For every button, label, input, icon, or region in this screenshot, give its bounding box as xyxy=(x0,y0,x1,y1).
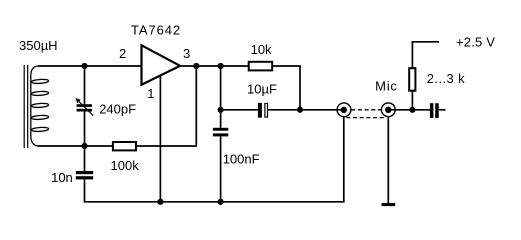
svg-text:2...3 k: 2...3 k xyxy=(427,71,465,86)
capacitor C1 240pF arrow xyxy=(75,98,93,116)
wire right jack to ground symbol xyxy=(387,117,389,203)
wire supply (resistor top to +2.5V) xyxy=(412,42,439,68)
svg-text:100k: 100k xyxy=(111,158,140,173)
wire variable-capacitor branch (top lead) xyxy=(84,66,86,104)
inductor L1 350µH winding xyxy=(31,66,49,146)
wire tank bottom (coil bottom to 100k) xyxy=(38,145,114,147)
wire audio line (100nF node to 10µF) xyxy=(221,109,258,111)
IC U1 TA7642 (amplifier triangle) xyxy=(142,45,181,84)
capacitor C1 240pF (variable) plates xyxy=(77,104,92,111)
capacitor C3 100nF plates xyxy=(213,128,228,137)
svg-text:1: 1 xyxy=(147,86,154,101)
node bias/output xyxy=(409,107,415,113)
node 100nF/ground rail xyxy=(218,199,224,205)
wire IC output (pin 3 to 10k) xyxy=(180,65,250,67)
node 10k/10µF xyxy=(297,107,303,113)
wire 10n top lead xyxy=(84,146,86,171)
ground symbol xyxy=(382,203,396,206)
svg-text:+2.5 V: +2.5 V xyxy=(456,35,495,50)
svg-text:100nF: 100nF xyxy=(223,151,260,166)
wire variable-capacitor branch (bottom lead) xyxy=(84,111,86,146)
wire bias resistor bottom lead xyxy=(411,91,413,110)
wire top tank/input (coil top to IC pin 2) xyxy=(38,65,141,67)
capacitor C5 output plates xyxy=(430,103,439,118)
connector left jack circle xyxy=(337,103,351,117)
resistor R3 2...3 k xyxy=(409,68,415,91)
capacitor C2 10n plates xyxy=(76,171,93,179)
svg-text:2: 2 xyxy=(119,46,126,61)
connector mating dashed line upper xyxy=(351,109,381,111)
connector right jack circle xyxy=(381,103,395,117)
connector mating dashed line lower xyxy=(346,117,385,119)
svg-text:3: 3 xyxy=(183,46,190,61)
svg-text:10k: 10k xyxy=(251,42,272,57)
node pin1/ground rail xyxy=(157,199,163,205)
node audio/100nF xyxy=(218,107,224,113)
connector right jack contact dot xyxy=(385,107,391,113)
resistor R1 100k xyxy=(113,142,136,150)
node tank top junction xyxy=(81,63,87,69)
capacitor C4 10µF (polarized) xyxy=(258,103,268,118)
wire 10µF to left jack contact xyxy=(268,109,344,111)
resistor R2 10k xyxy=(249,62,273,71)
svg-text:Mic: Mic xyxy=(375,78,398,93)
wire 10k right lead down to coupling line xyxy=(272,66,300,110)
node output/100nF branch xyxy=(218,63,224,69)
node output/feedback xyxy=(193,63,199,69)
svg-text:10µF: 10µF xyxy=(247,81,277,96)
wire right jack to bias node xyxy=(388,109,430,111)
node tank bottom junction xyxy=(81,143,87,149)
wire feedback (output down to 100k) xyxy=(136,66,196,146)
svg-text:350µH: 350µH xyxy=(19,38,58,53)
svg-text:TA7642: TA7642 xyxy=(131,22,181,37)
wire 100nF branch lower xyxy=(220,136,222,201)
connector left jack contact dot xyxy=(341,107,347,113)
wire 100nF branch upper xyxy=(220,66,222,128)
svg-text:10n: 10n xyxy=(51,170,73,185)
wire ground rail (10n bottom, along bottom, up to left jack) xyxy=(85,117,344,202)
inductor L1 350µH core (ferrite bar) xyxy=(24,65,28,148)
wire IC pin 1 to ground rail xyxy=(159,75,161,202)
svg-text:240pF: 240pF xyxy=(99,102,136,117)
wire output stub xyxy=(439,109,446,111)
